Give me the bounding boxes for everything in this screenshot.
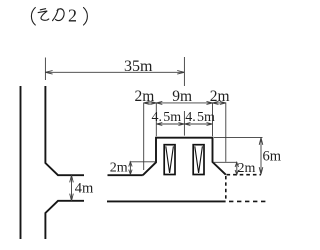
svg-text:2m: 2m	[238, 161, 256, 176]
main road lower edge solid	[107, 200, 226, 202]
main road upper edge left segment	[108, 174, 143, 176]
svg-text:2m: 2m	[135, 88, 155, 105]
dimension 35m line	[45, 71, 184, 73]
left road west edge	[20, 86, 22, 239]
dimension 35m extension left	[44, 58, 46, 81]
pier 2 V brace	[195, 146, 203, 173]
pier 2	[193, 145, 204, 175]
center extension	[183, 111, 185, 136]
title (sono 2) parentheses	[31, 8, 87, 26]
dimension 35m arrows	[45, 71, 184, 75]
4m dimension line	[71, 175, 73, 201]
dimension 35m extension right	[183, 57, 185, 86]
6m dimension line	[260, 138, 262, 175]
svg-text:6m: 6m	[263, 148, 282, 164]
left road east edge upper with chamfer	[45, 86, 84, 175]
left 2m height dimension with arrows	[129, 162, 131, 175]
svg-text:4m: 4m	[75, 181, 94, 197]
title hiragana so	[38, 9, 49, 21]
dimension row arrows	[144, 101, 226, 104]
dimension 4.5m arrows	[156, 123, 212, 126]
svg-text:4.5m: 4.5m	[185, 110, 215, 125]
svg-text:2m: 2m	[210, 88, 230, 105]
right 2m height extension line	[214, 161, 237, 163]
pier 1 V brace	[166, 146, 174, 173]
svg-text:2: 2	[68, 6, 77, 26]
6m arrows	[259, 138, 263, 175]
dashed continuation upper	[227, 174, 262, 176]
4m arrows	[70, 175, 74, 201]
svg-text:2m: 2m	[110, 160, 128, 175]
title hiragana no	[53, 9, 65, 21]
dashed continuation lower	[229, 200, 267, 202]
dimension 4.5m 4.5m line	[156, 123, 212, 125]
pier 1	[164, 145, 175, 175]
left road east edge lower with chamfer	[45, 201, 84, 239]
svg-text:4.5m: 4.5m	[152, 110, 182, 125]
right 2m height dimension with arrows	[236, 162, 238, 174]
svg-text:35m: 35m	[124, 58, 153, 75]
dashed cut line vertical	[225, 176, 227, 201]
platform outline	[143, 138, 226, 176]
top dimension row extension lines	[143, 102, 145, 170]
6m extension line top	[214, 136, 263, 138]
svg-text:9m: 9m	[172, 88, 192, 105]
dimension row 2m 9m 2m line	[144, 102, 226, 104]
left 2m height extension line	[130, 161, 156, 163]
